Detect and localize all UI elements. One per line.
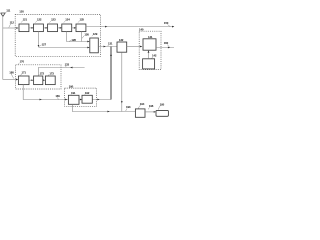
svg-text:111: 111 — [6, 9, 11, 13]
dashed box 170 — [16, 65, 61, 89]
arrowhead mid top line — [105, 26, 107, 28]
arrowhead after dashed edge mid — [104, 46, 106, 48]
wire 125 tap down — [81, 32, 83, 42]
feedback wire into 172 — [38, 68, 84, 77]
leader 128 — [69, 40, 71, 41]
wire 124 to 125 — [72, 27, 75, 29]
svg-text:127: 127 — [42, 42, 47, 46]
arrowhead mid pll bus — [40, 99, 42, 101]
arrowhead into 171 — [16, 79, 18, 81]
arrowhead end top line — [172, 26, 174, 28]
leader 170 — [18, 63, 20, 65]
svg-text:171: 171 — [22, 70, 27, 74]
leader 180 — [11, 74, 14, 79]
leader 194 — [138, 105, 140, 108]
leader 193 — [126, 109, 127, 112]
svg-text:195: 195 — [160, 102, 165, 106]
svg-text:173: 173 — [49, 72, 54, 76]
box 122 — [34, 24, 44, 32]
box 123 — [48, 24, 58, 32]
svg-text:141: 141 — [148, 35, 153, 39]
svg-text:181: 181 — [55, 94, 60, 98]
svg-text:129: 129 — [93, 32, 98, 36]
leader 181 — [57, 97, 59, 99]
wire 124 tap down — [67, 32, 89, 42]
box 195 — [156, 110, 168, 116]
svg-text:131: 131 — [108, 42, 113, 46]
box 191 — [68, 95, 79, 104]
box 121 — [19, 24, 29, 32]
svg-text:124: 124 — [65, 17, 70, 21]
arrowhead into 191 — [65, 99, 67, 101]
main output wire 125 to 150 — [86, 26, 174, 28]
svg-text:122: 122 — [37, 17, 42, 21]
wire 122 tap down — [38, 32, 40, 46]
box 142 — [143, 59, 155, 69]
mixer box 132 — [117, 42, 127, 52]
label leader ticks — [21, 21, 23, 23]
svg-text:150: 150 — [164, 21, 169, 25]
dashed box 190 — [65, 88, 97, 106]
arrowhead up on riser — [110, 54, 112, 56]
detector box 129 — [90, 38, 99, 53]
arrowhead mid bottom bus — [107, 111, 109, 113]
svg-text:180: 180 — [9, 70, 14, 74]
box 141 — [143, 39, 156, 50]
wire 142 to 141 — [148, 50, 150, 59]
leader 160 — [167, 45, 169, 47]
wire 194 to 195 — [145, 111, 155, 113]
arrowhead down on mixer drop — [121, 101, 123, 103]
arrowhead on 160 wire — [168, 47, 170, 49]
arrowhead into 141 — [140, 46, 142, 48]
svg-text:126: 126 — [84, 32, 89, 36]
svg-text:191: 191 — [71, 91, 76, 95]
wire mixer down to bottom bus — [121, 52, 123, 111]
output wire 141 to 160 — [156, 47, 174, 49]
leader 127 — [39, 45, 41, 47]
wire mixer to 141 — [127, 46, 142, 48]
arrowhead after 192 output — [97, 99, 99, 101]
svg-text:121: 121 — [23, 17, 28, 21]
wire antenna to box 121 — [3, 27, 17, 29]
svg-text:192: 192 — [85, 91, 90, 95]
leader 126 — [82, 36, 84, 39]
arrowhead into 121 — [16, 27, 18, 29]
wire 171 down to pll bus — [23, 85, 68, 100]
wire 129 to mixer 132 — [98, 46, 117, 48]
svg-text:193: 193 — [126, 105, 131, 109]
svg-text:120: 120 — [19, 9, 24, 13]
arrowhead into 129 upper — [87, 41, 89, 43]
box 124 — [62, 24, 72, 32]
svg-text:172: 172 — [40, 72, 45, 76]
box 173 — [45, 76, 55, 85]
box 194 — [135, 109, 145, 117]
wire 122 to 123 — [43, 27, 46, 29]
wire rail into 171 — [3, 79, 17, 81]
box 172 — [34, 76, 43, 85]
svg-text:128: 128 — [71, 38, 76, 42]
box 171 — [18, 76, 29, 85]
leader 150 — [168, 25, 171, 27]
leader 111 — [4, 12, 6, 15]
wire riser from 192 up to node — [92, 99, 111, 101]
wire 121 to 122 — [29, 27, 33, 29]
svg-text:190: 190 — [69, 84, 74, 88]
svg-text:125: 125 — [80, 17, 85, 21]
antenna 111 — [1, 13, 6, 16]
svg-text:196: 196 — [149, 104, 154, 108]
box 125 — [76, 24, 86, 32]
dashed box 140 — [139, 31, 161, 69]
svg-text:170: 170 — [20, 60, 25, 64]
svg-text:112: 112 — [10, 21, 15, 25]
box 192 — [82, 95, 92, 103]
wire 191 to 192 — [79, 99, 81, 101]
wire 123 to 124 — [58, 27, 61, 29]
wire 191 down to bottom bus — [72, 104, 135, 111]
wire 172 to 173 — [43, 79, 44, 81]
svg-text:194: 194 — [140, 102, 145, 106]
leader 142 — [151, 57, 152, 59]
svg-text:160: 160 — [164, 41, 169, 45]
wire 171 to 172 — [29, 79, 32, 81]
arrowhead up into 141 — [148, 50, 150, 52]
arrowhead left on feedback — [70, 67, 72, 69]
wire antenna left rail — [2, 16, 4, 79]
svg-text:123: 123 — [51, 17, 56, 21]
svg-text:140: 140 — [139, 27, 144, 31]
leader 112 — [9, 24, 11, 28]
agc bus wire lower — [39, 47, 90, 49]
dashed box 120 — [15, 15, 100, 57]
svg-text:132: 132 — [119, 38, 124, 42]
